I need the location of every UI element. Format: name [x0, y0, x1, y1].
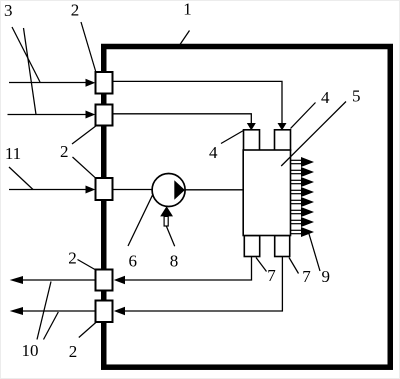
- svg-text:4: 4: [209, 143, 218, 162]
- svg-text:3: 3: [4, 1, 13, 20]
- svg-text:4: 4: [321, 88, 330, 107]
- svg-text:2: 2: [68, 249, 77, 268]
- svg-text:6: 6: [129, 252, 138, 271]
- svg-text:5: 5: [352, 87, 361, 106]
- svg-text:7: 7: [302, 267, 311, 286]
- svg-text:1: 1: [183, 0, 192, 19]
- svg-text:9: 9: [321, 267, 330, 286]
- svg-text:2: 2: [71, 1, 80, 20]
- svg-text:2: 2: [69, 342, 78, 361]
- svg-text:11: 11: [5, 144, 21, 163]
- svg-text:10: 10: [22, 341, 39, 360]
- svg-text:7: 7: [267, 266, 276, 285]
- svg-text:2: 2: [60, 142, 69, 161]
- svg-text:8: 8: [170, 252, 179, 271]
